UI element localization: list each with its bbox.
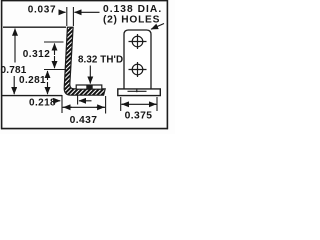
front view base flange <box>118 89 161 96</box>
0.037 arrows <box>59 11 66 13</box>
lower hole centre tick <box>44 69 66 71</box>
top extension line <box>3 26 66 28</box>
dimension 0.437 <box>63 106 106 108</box>
bottom extension line <box>2 95 62 97</box>
svg-text:(2) HOLES: (2) HOLES <box>103 15 160 26</box>
svg-text:8.32 TH'D,: 8.32 TH'D, <box>78 55 126 66</box>
base boss edge line <box>128 90 147 92</box>
svg-text:0.037: 0.037 <box>28 5 57 16</box>
upper hole centre tick <box>44 41 64 43</box>
base centre tick <box>136 89 138 93</box>
svg-text:0.281: 0.281 <box>19 75 46 86</box>
dimension 0.375 <box>120 97 122 111</box>
border frame <box>1 0 168 129</box>
0.218 right extension tick (hole centre) <box>77 95 79 105</box>
upper hole U1 <box>129 34 147 49</box>
svg-text:0.437: 0.437 <box>70 115 98 126</box>
boss tapped hole <box>86 85 92 89</box>
0.037 extension ticks <box>67 7 74 26</box>
holes leader arrow <box>151 24 164 30</box>
0.218/0.437 left extension tick <box>61 95 63 113</box>
side view vertical leg (hatched) <box>64 27 105 95</box>
svg-text:0.138 DIA.: 0.138 DIA. <box>103 4 162 15</box>
threaded boss on foot <box>76 85 102 89</box>
svg-text:0.312: 0.312 <box>23 49 51 60</box>
front view plate <box>124 30 151 89</box>
0.437 right extension tick <box>105 96 107 114</box>
svg-text:0.375: 0.375 <box>125 111 153 122</box>
8-32 leader arrow to boss <box>89 66 91 84</box>
svg-text:0.218: 0.218 <box>29 98 56 109</box>
lower hole U2 <box>129 62 147 77</box>
